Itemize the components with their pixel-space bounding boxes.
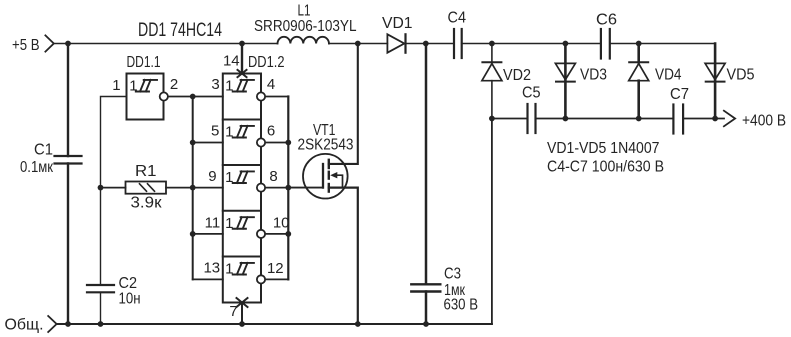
capacitor C7 (673, 105, 683, 134)
DD1.2 output bubble pin 10 (257, 230, 265, 238)
svg-text:12: 12 (267, 260, 284, 277)
capacitor C5 (528, 104, 536, 133)
node VD4 bottom junction (636, 116, 642, 122)
wire C2 to ground (100, 292, 102, 324)
wire second row segment B (C5 to C7) (536, 118, 674, 120)
svg-text:1: 1 (225, 78, 233, 95)
svg-text:C4-C7 100н/630 В: C4-C7 100н/630 В (547, 159, 664, 176)
svg-text:VD3: VD3 (580, 67, 607, 84)
capacitor C1 (55, 156, 82, 164)
svg-text:10н: 10н (119, 291, 141, 308)
svg-text:Общ.: Общ. (5, 317, 44, 334)
node pin 11 bus junction (190, 231, 196, 237)
wire C1 branch lower (67, 164, 69, 325)
node C6-VD4 junction (636, 41, 642, 47)
svg-text:2: 2 (170, 76, 178, 93)
node +400V output terminal (724, 111, 735, 127)
node pin 14 rail junction (239, 41, 245, 47)
svg-text:14: 14 (223, 53, 240, 70)
wire pin 10 output (265, 233, 288, 235)
svg-text:4: 4 (267, 76, 275, 93)
node C1 ground junction (65, 321, 71, 327)
diode VD2 (482, 62, 502, 80)
svg-text:VD5: VD5 (727, 67, 755, 84)
wire pin 8 output (265, 187, 288, 189)
svg-text:C5: C5 (522, 85, 541, 102)
wire row 5 input (pin 13) (193, 278, 223, 280)
wire pin 14 drop (241, 44, 243, 74)
capacitor C4 (454, 29, 462, 58)
wire VT1 drain to top rail (329, 44, 358, 164)
svg-text:C6: C6 (596, 12, 617, 29)
svg-text:DD1 74HC14: DD1 74HC14 (138, 20, 222, 41)
wire VD2 upper lead (491, 44, 493, 63)
svg-text:L1: L1 (298, 3, 311, 20)
wire pin 4 output (265, 96, 288, 98)
wire pin 7 drop to ground (241, 303, 243, 325)
wire top rail segment C (VD1 to C4) (406, 43, 455, 45)
node +5V input terminal (45, 35, 53, 51)
node pin 10 output bus junction (285, 231, 291, 237)
wire top rail segment D (C4 to C6) (462, 43, 601, 45)
resistor R1 (126, 182, 167, 194)
svg-text:3: 3 (211, 76, 219, 93)
DD1.2 output bubble pin 4 (257, 92, 265, 100)
node C2 ground junction (98, 321, 104, 327)
wire pin 6 output (265, 142, 288, 144)
DD1.2 output bubble pin 8 (257, 184, 265, 192)
svg-text:13: 13 (203, 260, 220, 277)
capacitor C6 (601, 29, 610, 59)
DD1.2 hysteresis glyph row 2 (233, 126, 254, 138)
svg-text:R1: R1 (135, 163, 157, 180)
node C3 ground junction (423, 321, 429, 327)
DD1.2 hysteresis glyph row 1 (233, 80, 254, 92)
wire VD4 lower lead (637, 81, 640, 119)
wire row 4 input (pin 11) (193, 233, 223, 235)
svg-text:C7: C7 (670, 86, 689, 103)
svg-text:C3: C3 (444, 266, 461, 283)
wire VD2 lower lead (491, 81, 493, 119)
diode VD4 (629, 62, 649, 80)
diode VD5 (705, 63, 725, 81)
wire second row segment A (to C5) (492, 118, 528, 120)
node VD2-C5 junction (489, 116, 495, 122)
pin number labels (112, 53, 289, 321)
svg-text:1: 1 (225, 124, 233, 141)
wire row 2 input (pin 5) (193, 142, 223, 144)
DD1.2 output bubble pin 12 (257, 275, 265, 283)
capacitor C3 (411, 284, 440, 291)
svg-text:8: 8 (269, 168, 277, 185)
svg-text:C1: C1 (34, 142, 53, 159)
wire VD4 upper lead (637, 44, 640, 63)
svg-text:VD1: VD1 (382, 15, 413, 32)
wire pin 12 output (265, 278, 288, 280)
wire VD5 vertical (714, 44, 717, 119)
svg-text:+5 В: +5 В (12, 37, 40, 54)
node VD1-C4-C3 junction (423, 41, 429, 47)
svg-text:VD4: VD4 (655, 67, 682, 84)
node R1 left junction (98, 185, 104, 191)
wire second row segment C (C7 to output) (683, 118, 724, 120)
svg-text:2SK2543: 2SK2543 (298, 137, 354, 154)
op-amp DD1.1 inverter box (127, 74, 164, 120)
node pin 5 bus junction (190, 140, 196, 146)
wire VT1 source to ground (329, 188, 358, 324)
svg-text:7: 7 (229, 303, 237, 320)
svg-text:C4: C4 (448, 10, 467, 27)
node pin 2-3 bus junction (190, 94, 196, 100)
svg-text:11: 11 (205, 215, 221, 232)
svg-text:5: 5 (211, 122, 219, 139)
node VT1 source ground junction (355, 321, 361, 327)
capacitor C2 (87, 285, 114, 292)
svg-text:1: 1 (129, 78, 137, 95)
svg-text:9: 9 (208, 168, 216, 185)
wire ground rail (57, 323, 492, 325)
wire pin 2 to pin 3 (168, 96, 223, 98)
DD1.2 hysteresis glyph row 3 (233, 171, 254, 183)
node pin 7 ground junction (239, 321, 245, 327)
svg-text:3.9к: 3.9к (131, 195, 163, 212)
wire pin 1 net (DD1.1 input, left vertical) (101, 97, 127, 286)
node VD3 top junction (563, 41, 569, 47)
svg-text:630 В: 630 В (444, 297, 479, 314)
pin 14 cross marker (238, 70, 247, 77)
node R1-pin 9 bus junction (190, 185, 196, 191)
wire top rail segment E (C6 to VD5 corner) (610, 43, 715, 45)
node pin 6 output bus junction (285, 140, 291, 146)
transistor VT1 (303, 154, 348, 199)
svg-text:+400 В: +400 В (742, 113, 786, 130)
node C4-VD2 junction (489, 41, 495, 47)
svg-text:0.1мк: 0.1мк (20, 159, 54, 176)
node VD3 bottom junction (563, 116, 569, 122)
wire top rail segment A (+5V to L1) (54, 43, 278, 45)
wire R1 left lead (101, 187, 126, 189)
wire VT1 gate (pin outputs to gate) (288, 187, 323, 189)
node VT1 drain rail junction (355, 41, 361, 47)
svg-text:VD2: VD2 (503, 67, 531, 84)
node C1 top junction (65, 41, 71, 47)
svg-text:1: 1 (225, 215, 233, 232)
wire ground drop right (491, 119, 493, 325)
wire VD3 vertical (564, 44, 567, 119)
svg-text:DD1.1: DD1.1 (127, 54, 161, 71)
svg-text:SRR0906-103YL: SRR0906-103YL (254, 18, 357, 35)
wire C1 branch upper (67, 44, 69, 157)
DD1.2 hysteresis glyph row 4 (233, 217, 254, 229)
node pin 8 gate junction (285, 185, 291, 191)
DD1.2 hysteresis glyph row 5 (233, 263, 254, 275)
diode VD3 (555, 63, 575, 81)
inductor L1 (278, 37, 329, 44)
node VD5-C7 output junction (712, 116, 718, 122)
svg-text:10: 10 (273, 215, 290, 232)
DD1.1 hysteresis glyph (136, 80, 157, 92)
wire C3 branch lower (425, 292, 428, 325)
svg-text:VD1-VD5 1N4007: VD1-VD5 1N4007 (547, 140, 660, 157)
wire row 3 input (pin 9) (193, 187, 223, 189)
wire left input bus (192, 97, 194, 280)
svg-text:1: 1 (225, 261, 233, 278)
wire C3 branch upper (425, 44, 428, 285)
pin 7 cross marker (237, 298, 248, 307)
svg-text:6: 6 (267, 122, 275, 139)
svg-text:C2: C2 (119, 275, 138, 292)
wire R1 right lead (166, 187, 193, 189)
DD1.1 output bubble pin 2 (160, 92, 168, 100)
wire top rail segment B (L1 to VD1) (329, 43, 387, 45)
wire right output bus (287, 97, 289, 280)
svg-text:DD1.2: DD1.2 (248, 54, 285, 71)
node ground input terminal (48, 316, 56, 332)
op-amp DD1.2 inverter stack (223, 74, 261, 303)
DD1.2 output bubble pin 6 (257, 138, 265, 146)
svg-text:1: 1 (225, 169, 233, 186)
svg-text:1: 1 (112, 77, 120, 94)
diode VD1 (387, 34, 405, 52)
